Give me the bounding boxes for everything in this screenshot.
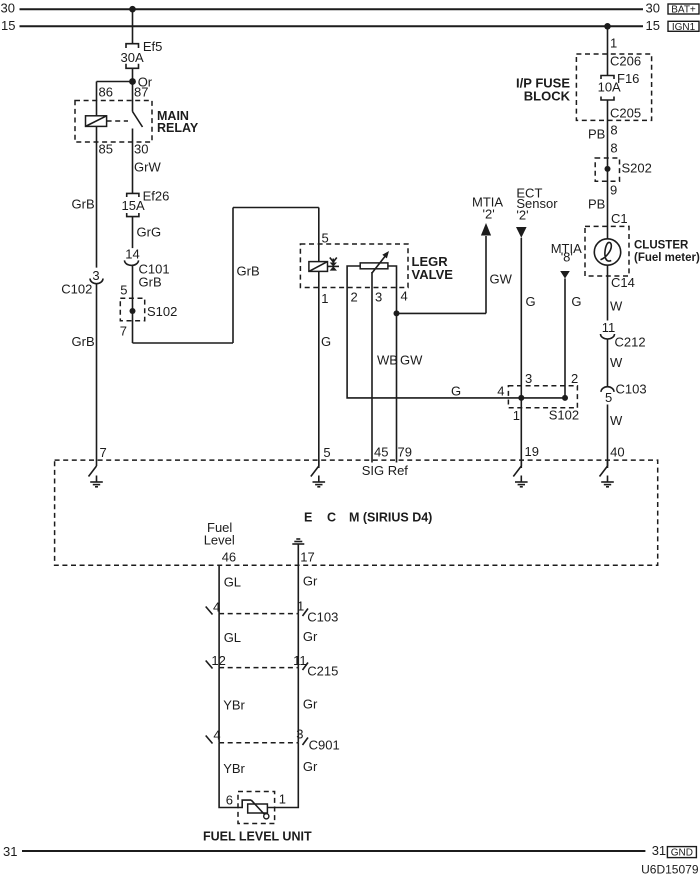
svg-text:BLOCK: BLOCK: [524, 89, 571, 104]
ECM internal ground above pin 17: [292, 539, 314, 565]
svg-text:4: 4: [213, 728, 220, 743]
svg-text:1: 1: [610, 36, 617, 51]
wire C901 to fuel level unit left (YBr): [219, 743, 251, 808]
wire C102 down to ECM pin 7 (GrB): [72, 284, 97, 466]
svg-text:5: 5: [120, 283, 127, 298]
svg-text:S202: S202: [622, 161, 652, 176]
svg-text:C102: C102: [61, 282, 92, 297]
svg-text:SIG Ref: SIG Ref: [362, 463, 409, 478]
LEGR pin 4 wire (GW) to ECM pin 79: [388, 266, 423, 463]
fuse F16: [598, 71, 640, 100]
svg-text:GW: GW: [400, 353, 423, 368]
svg-text:C103: C103: [307, 610, 338, 625]
wire junction to MTIA 2 arrow (GW): [397, 236, 513, 313]
wire node Or to relay pin 87: [132, 82, 134, 112]
svg-text:GrB: GrB: [72, 334, 95, 349]
wire ECM pin 46 down (GL): [213, 565, 241, 614]
bus 30 wire: [20, 6, 644, 13]
svg-text:1: 1: [321, 291, 328, 306]
svg-text:GL: GL: [224, 630, 241, 645]
svg-text:15: 15: [1, 18, 15, 33]
svg-text:VALVE: VALVE: [412, 267, 454, 282]
valve LEGR VALVE box: [300, 244, 453, 288]
svg-text:Gr: Gr: [303, 574, 318, 589]
svg-text:3: 3: [525, 371, 532, 386]
svg-text:GrB: GrB: [237, 264, 260, 279]
svg-text:WB: WB: [377, 353, 398, 368]
svg-text:3: 3: [375, 290, 382, 305]
LEGR pin 3 wire (WB) to ECM pin 45: [372, 272, 398, 463]
svg-text:Level: Level: [204, 533, 235, 548]
arrow MTIA 2: [472, 195, 503, 236]
svg-text:GrB: GrB: [72, 197, 95, 212]
svg-text:C215: C215: [307, 664, 338, 679]
wire S202 to cluster (PB): [588, 169, 628, 239]
svg-text:GrB: GrB: [139, 275, 162, 290]
cluster fuel gauge: [594, 239, 620, 265]
svg-text:11: 11: [602, 320, 616, 335]
svg-text:2: 2: [351, 290, 358, 305]
svg-text:C901: C901: [309, 738, 340, 753]
svg-text:'2': '2': [483, 207, 495, 222]
bus 15 wire: [20, 23, 644, 30]
svg-text:8: 8: [610, 141, 617, 156]
svg-text:YBr: YBr: [223, 761, 245, 776]
svg-text:'8': '8': [561, 250, 573, 265]
svg-text:7: 7: [100, 445, 107, 460]
svg-text:GrW: GrW: [134, 160, 161, 175]
wire C215 to C901 right (Gr): [296, 668, 318, 743]
node GND: [667, 847, 696, 859]
svg-text:31: 31: [652, 843, 666, 858]
ECM box: [55, 460, 658, 565]
fuse Ef5: [121, 39, 163, 68]
wire S102 right down to ECM pin 19: [520, 398, 522, 466]
svg-text:8: 8: [610, 123, 617, 138]
svg-text:4: 4: [401, 289, 408, 304]
svg-text:15A: 15A: [122, 198, 145, 213]
svg-text:Gr: Gr: [303, 759, 318, 774]
svg-text:14: 14: [125, 247, 139, 262]
ECM pin 7: [89, 445, 107, 487]
wire node Or to relay coil branch: [97, 82, 133, 116]
wire F16 to S202 (PB): [588, 100, 641, 169]
connector C901 inline: [206, 736, 340, 753]
wire cluster C14 down (W): [608, 265, 635, 320]
I/P FUSE BLOCK box: [516, 54, 652, 120]
wire riser top to LEGR valve pin 5: [233, 208, 329, 262]
svg-text:12: 12: [211, 653, 225, 668]
svg-text:C: C: [327, 511, 336, 525]
svg-text:11: 11: [293, 653, 307, 668]
svg-text:G: G: [451, 384, 461, 399]
svg-text:PB: PB: [588, 127, 605, 142]
ECM pin 5: [311, 445, 331, 487]
splice S102 right box: [508, 386, 579, 423]
splice S202: [595, 158, 652, 181]
svg-text:CLUSTER: CLUSTER: [634, 240, 689, 252]
arrow MTIA 8: [551, 241, 582, 279]
svg-text:17: 17: [300, 550, 314, 565]
wire bus30 to fuse Ef5: [132, 9, 134, 44]
svg-text:C206: C206: [610, 54, 641, 69]
svg-text:79: 79: [398, 445, 412, 460]
svg-text:GW: GW: [490, 272, 513, 287]
wire C103 to ECM pin 40 (W): [608, 405, 624, 467]
LEGR valve solenoid coil: [309, 262, 328, 272]
svg-text:M (SIRIUS D4): M (SIRIUS D4): [349, 511, 432, 525]
svg-text:4: 4: [497, 384, 504, 399]
connector C212 pin 11: [601, 320, 646, 350]
wire C103 to C215 right (Gr): [293, 614, 318, 668]
svg-text:RELAY: RELAY: [157, 121, 199, 135]
wire relay pin 85 down (GrB): [96, 126, 98, 267]
wire S102 down and right to GrB riser: [120, 311, 233, 343]
svg-text:BAT+: BAT+: [671, 5, 696, 16]
fuel level sender resistor: [248, 800, 269, 819]
svg-text:PB: PB: [588, 197, 605, 212]
splice S102 left: [120, 298, 177, 321]
ECM pin 19: [513, 444, 539, 487]
svg-text:Gr: Gr: [303, 629, 318, 644]
wire C103 to C215 left (GL): [211, 614, 241, 668]
LEGR pin 2 wire to S102: [347, 266, 521, 399]
relay switch: [107, 112, 143, 128]
svg-text:E: E: [304, 511, 312, 525]
svg-text:C212: C212: [615, 335, 646, 350]
svg-text:C205: C205: [610, 106, 641, 121]
svg-text:4: 4: [213, 600, 220, 615]
svg-text:YBr: YBr: [223, 698, 245, 713]
ECM Fuel Level label: [204, 520, 236, 565]
svg-text:19: 19: [525, 444, 539, 459]
connector C215 inline: [206, 661, 339, 679]
svg-text:W: W: [610, 299, 623, 314]
LEGR valve potentiometer: [360, 251, 389, 273]
svg-text:Gr: Gr: [303, 697, 318, 712]
svg-text:1: 1: [297, 599, 304, 614]
wire ECT sensor down to S102 (G): [521, 238, 535, 398]
svg-text:86: 86: [99, 85, 113, 100]
LEGR valve pintle symbol: [328, 258, 340, 271]
FUEL LEVEL UNIT box: [203, 792, 312, 844]
svg-text:87: 87: [134, 85, 148, 100]
svg-text:5: 5: [323, 445, 330, 460]
svg-text:W: W: [610, 413, 623, 428]
svg-text:S102: S102: [147, 304, 177, 319]
svg-text:Ef5: Ef5: [143, 39, 163, 54]
svg-text:S102: S102: [549, 408, 579, 423]
node IGN1: [668, 21, 699, 33]
svg-text:G: G: [321, 334, 331, 349]
svg-text:40: 40: [610, 445, 624, 460]
wire MTIA 8 down to S102 (G): [565, 279, 582, 398]
wire C212 to C103 (W): [608, 339, 624, 386]
svg-text:IGN1: IGN1: [672, 22, 696, 33]
relay pin labels: [99, 85, 149, 157]
ECM pins 45 79 SIG Ref: [362, 445, 412, 479]
svg-text:(Fuel meter): (Fuel meter): [634, 252, 700, 264]
wire fuse Ef26 to connector C101 (GrG): [133, 217, 162, 249]
relay coil: [86, 116, 107, 127]
svg-text:W: W: [610, 355, 623, 370]
svg-text:G: G: [571, 294, 581, 309]
ECM pin 40: [600, 445, 625, 487]
svg-text:'2': '2': [516, 208, 528, 223]
svg-text:6: 6: [226, 793, 233, 808]
svg-text:15: 15: [646, 18, 660, 33]
CLUSTER box: [585, 226, 700, 276]
arrow ECT Sensor 2: [516, 186, 558, 238]
wire C901 to fuel level unit right (Gr): [267, 743, 318, 808]
svg-text:U6D15079: U6D15079: [641, 863, 699, 877]
svg-text:5: 5: [605, 390, 612, 405]
svg-text:30: 30: [1, 1, 15, 16]
svg-text:C103: C103: [616, 382, 647, 397]
svg-text:2: 2: [571, 371, 578, 386]
svg-text:C14: C14: [611, 275, 635, 290]
svg-text:C1: C1: [611, 211, 628, 226]
svg-text:Ef26: Ef26: [143, 189, 170, 204]
svg-text:1: 1: [513, 408, 520, 423]
connector C103 inline: [206, 607, 339, 625]
svg-text:85: 85: [99, 142, 113, 157]
fuse Ef26: [122, 189, 170, 217]
wire GrB riser up: [233, 208, 260, 344]
svg-text:3: 3: [296, 727, 303, 742]
svg-text:7: 7: [120, 324, 127, 339]
svg-text:30A: 30A: [121, 50, 144, 65]
svg-text:46: 46: [222, 550, 236, 565]
svg-text:30: 30: [646, 1, 660, 16]
wire bus15 to I/P fuse block: [608, 26, 642, 75]
connector C103 pin 5: [601, 382, 647, 406]
wire C215 to C901 left (YBr): [213, 668, 245, 743]
svg-text:3: 3: [92, 268, 99, 283]
relay MAIN RELAY box: [75, 101, 199, 143]
svg-text:30: 30: [134, 142, 148, 157]
connector C101 pin 14: [125, 247, 170, 277]
wire relay pin 30 to fuse Ef26 (GrW): [133, 129, 162, 194]
wire fuse Ef5 to node Or: [132, 68, 134, 81]
bus 31 wire: [22, 850, 645, 852]
wire ECM pin 17 down (Gr): [297, 565, 318, 613]
node Or junction: [129, 75, 153, 90]
svg-text:FUEL LEVEL UNIT: FUEL LEVEL UNIT: [203, 830, 312, 844]
LEGR valve pin 1 wire (G) to ECM pin 5: [319, 271, 331, 466]
svg-text:31: 31: [3, 844, 17, 859]
svg-text:G: G: [526, 294, 536, 309]
svg-text:45: 45: [374, 445, 388, 460]
svg-text:1: 1: [279, 792, 286, 807]
svg-text:9: 9: [610, 183, 617, 198]
svg-text:GND: GND: [671, 847, 693, 858]
svg-text:GrG: GrG: [137, 225, 162, 240]
svg-text:GL: GL: [224, 575, 241, 590]
node BAT+: [668, 4, 699, 16]
svg-text:10A: 10A: [598, 80, 621, 95]
connector C102 pin 3: [61, 268, 103, 297]
wire C101 to S102 (GrB): [120, 265, 161, 311]
junction on pin 4 wire: [394, 310, 400, 316]
